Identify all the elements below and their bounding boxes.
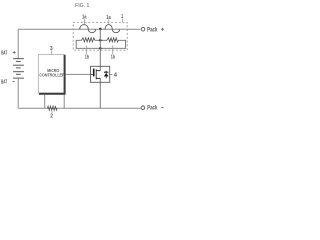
inductor 1a left: [80, 25, 96, 33]
wire gate MCU to MOSFET: [66, 73, 91, 75]
wire bottom horizontal to Pack-: [18, 107, 140, 109]
MOSFET channel bar: [95, 69, 97, 79]
battery B1 plates: [13, 59, 24, 78]
wire MCU left lead down: [44, 95, 46, 108]
wire middle vertical junction column: [99, 29, 101, 71]
svg-text:2: 2: [50, 114, 53, 120]
body diode D: [105, 71, 107, 79]
MOSFET Q4 box: [91, 66, 110, 82]
MOSFET gate bar: [93, 69, 95, 77]
label 1b left: [85, 46, 87, 55]
resistor loop rectangle: [76, 40, 125, 48]
terminal Pack -: [141, 106, 145, 110]
resistor 1b left: [82, 38, 96, 42]
label 4: [110, 74, 112, 76]
MOSFET drain tap: [96, 70, 100, 72]
wire MCU right lead down: [63, 95, 65, 108]
svg-text:BAT: BAT: [1, 80, 7, 86]
wire battery bottom vertical: [17, 78, 19, 108]
svg-text:BAT: BAT: [1, 51, 7, 57]
filter block 1 dashed box: [73, 22, 127, 50]
inductor 1a right: [105, 25, 120, 33]
svg-text:1b: 1b: [85, 55, 89, 61]
micro controller U3 box: [38, 55, 65, 94]
label 2: [51, 111, 53, 113]
wire top horizontal BAT+ to Pack+: [18, 28, 140, 30]
node junction dot on loop bottom rail: [99, 47, 102, 50]
resistor R2 sense on bottom wire: [47, 106, 57, 110]
svg-text:CONTROLLER: CONTROLLER: [39, 73, 65, 78]
svg-text:Pack: Pack: [147, 26, 158, 33]
resistor 1b right: [107, 38, 119, 42]
wire left vertical from top wire to battery: [17, 29, 19, 59]
svg-text:FIG. 1: FIG. 1: [75, 3, 90, 9]
MOSFET gate lead: [91, 73, 94, 75]
label 1b right: [112, 46, 114, 55]
svg-text:4: 4: [114, 72, 117, 78]
svg-text:Pack: Pack: [147, 105, 158, 112]
MOSFET source tap: [96, 77, 100, 79]
node junction dot on coil row: [99, 28, 102, 31]
node junction dot on resistor rail: [99, 39, 102, 42]
terminal Pack +: [141, 27, 145, 31]
svg-text:1b: 1b: [111, 55, 115, 61]
